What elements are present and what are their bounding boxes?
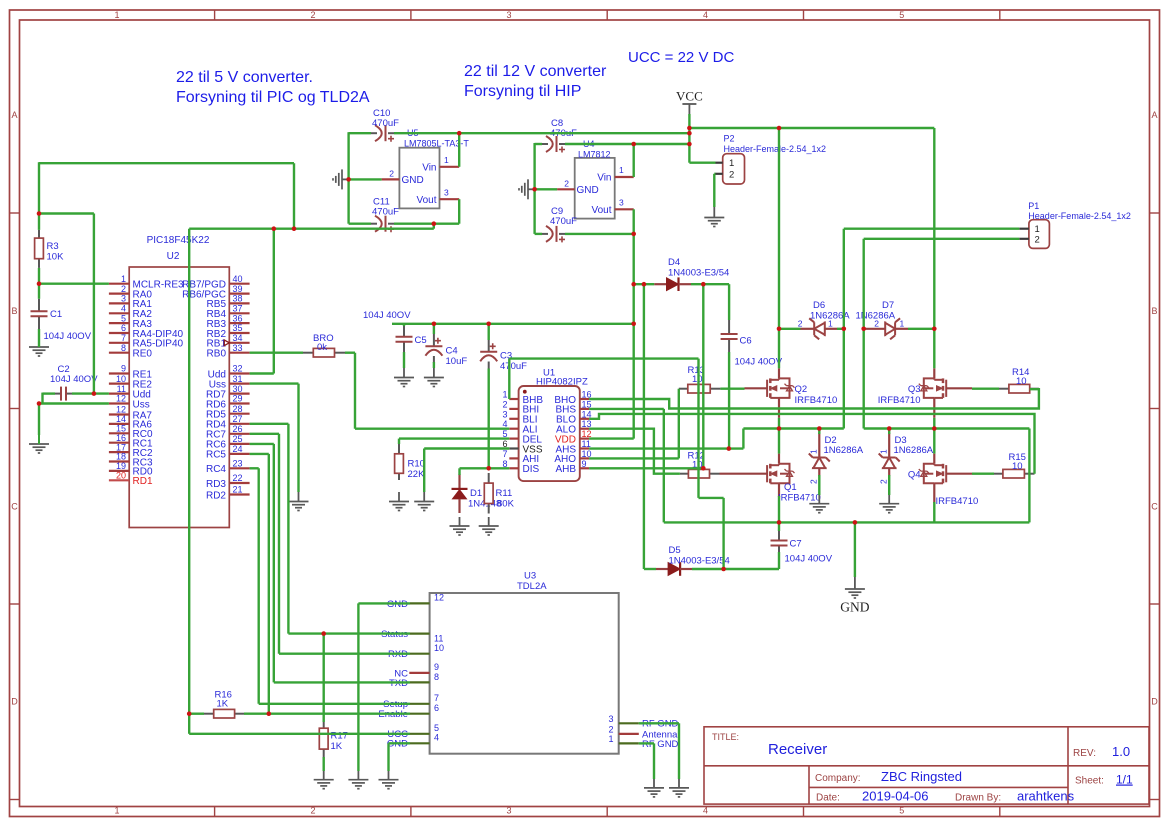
svg-text:8: 8 [121, 343, 126, 353]
junction [267, 711, 272, 716]
wire [189, 733, 410, 735]
pin [801, 328, 815, 330]
svg-text:TDL2A: TDL2A [517, 581, 547, 592]
pin [229, 413, 249, 415]
lead [994, 473, 1003, 475]
wire [273, 229, 275, 374]
svg-text:GND: GND [577, 185, 599, 196]
wire [844, 227, 1020, 229]
ground (U3 pin4) [379, 780, 399, 789]
wire [250, 467, 259, 469]
svg-text:4: 4 [703, 10, 708, 20]
wire [188, 229, 190, 714]
svg-text:3: 3 [121, 294, 126, 304]
wire [41, 393, 43, 404]
lead [488, 340, 490, 352]
wire [699, 497, 724, 499]
lead [55, 393, 61, 395]
svg-text:R11: R11 [496, 488, 513, 499]
svg-text:Vout: Vout [416, 195, 436, 206]
pin [933, 368, 935, 378]
pin [580, 447, 589, 449]
frame tick bottom [606, 807, 608, 817]
svg-text:D: D [11, 697, 18, 707]
pin [509, 467, 518, 469]
wire [778, 418, 780, 429]
wire [678, 723, 680, 779]
svg-text:4: 4 [703, 806, 708, 816]
wire [293, 163, 295, 229]
pin [615, 176, 634, 178]
svg-text:P1: P1 [1028, 201, 1039, 211]
wire [722, 498, 724, 569]
wire [535, 188, 558, 190]
svg-text:1: 1 [502, 390, 507, 400]
svg-text:C1: C1 [50, 309, 62, 320]
frame tick left [10, 799, 20, 801]
mosfet Q3 [919, 378, 946, 398]
wire [778, 128, 780, 329]
svg-text:470uF: 470uF [500, 361, 527, 372]
pin [946, 473, 972, 475]
junction [853, 520, 858, 525]
regulator U5 body [399, 148, 439, 209]
svg-text:26: 26 [233, 424, 243, 434]
ground (D2) [809, 504, 829, 513]
svg-text:3: 3 [506, 806, 511, 816]
mosfet Q1 [767, 464, 794, 484]
svg-text:27: 27 [233, 414, 243, 424]
wire [39, 283, 109, 285]
wire [38, 284, 40, 299]
wire [864, 238, 1020, 240]
svg-text:104J 40OV: 104J 40OV [44, 331, 92, 342]
svg-text:11: 11 [117, 384, 126, 394]
svg-text:A: A [1151, 110, 1157, 120]
svg-text:UCC = 22 V DC: UCC = 22 V DC [628, 49, 734, 66]
lead [388, 132, 394, 134]
lead [38, 299, 40, 311]
wire [349, 132, 371, 134]
junction [642, 282, 647, 287]
lead [488, 473, 490, 483]
svg-text:1N4003-E3/54: 1N4003-E3/54 [668, 268, 729, 279]
svg-text:Q4: Q4 [908, 470, 921, 481]
wire [347, 179, 349, 223]
ground (P2) [704, 218, 724, 227]
pin [109, 402, 129, 404]
wire [565, 143, 689, 145]
frame tick top [606, 10, 608, 20]
svg-text:0k: 0k [317, 342, 327, 353]
resistor R16 [214, 709, 235, 718]
pin [109, 393, 129, 395]
ground (C4) [424, 378, 444, 387]
svg-text:2: 2 [608, 724, 613, 734]
lead [323, 749, 325, 757]
svg-text:Q3: Q3 [908, 384, 921, 395]
svg-text:Vin: Vin [597, 173, 611, 184]
pin [509, 457, 518, 459]
wire [423, 449, 425, 493]
capacitor C9 [546, 226, 565, 243]
wire [728, 284, 730, 320]
pin [720, 473, 769, 475]
driver U1 body [519, 386, 580, 481]
wire [394, 222, 434, 224]
lead [1024, 473, 1034, 475]
svg-text:10: 10 [1012, 461, 1023, 472]
lead [488, 504, 490, 514]
svg-text:39: 39 [233, 284, 243, 294]
U2 pin 34 clock mark [224, 340, 229, 346]
wire [259, 703, 410, 705]
ground stem [713, 207, 715, 218]
capacitor C10 [375, 125, 394, 142]
junction [777, 426, 782, 431]
svg-text:32: 32 [233, 364, 243, 374]
svg-text:1: 1 [121, 274, 126, 284]
wire [533, 189, 535, 234]
junction [321, 631, 326, 636]
svg-text:B: B [11, 306, 17, 316]
svg-text:C6: C6 [740, 336, 752, 347]
svg-text:Vin: Vin [422, 162, 436, 173]
wire [664, 521, 1030, 523]
junction [777, 327, 782, 332]
ground stem [403, 368, 405, 378]
wire [689, 161, 715, 163]
junction [432, 221, 437, 226]
svg-text:2: 2 [874, 318, 879, 328]
svg-text:Forsyning til HIP: Forsyning til HIP [464, 83, 581, 100]
svg-text:2: 2 [310, 10, 315, 20]
junction [932, 327, 937, 332]
svg-text:22K: 22K [408, 469, 426, 480]
ground (RF GND 3) [669, 788, 689, 797]
wire [728, 352, 730, 449]
pin [557, 188, 575, 190]
svg-text:D1: D1 [470, 488, 482, 499]
wire [297, 384, 299, 492]
svg-text:D7: D7 [882, 300, 894, 311]
lead [388, 223, 394, 225]
svg-text:6: 6 [121, 323, 126, 333]
svg-text:C5: C5 [415, 335, 427, 346]
wire [589, 447, 743, 449]
wire [345, 352, 355, 354]
lead [778, 531, 780, 541]
svg-text:Q1: Q1 [784, 482, 797, 493]
wire [818, 475, 820, 495]
svg-text:Uss: Uss [133, 399, 150, 410]
wire [714, 173, 715, 175]
frame tick right [1150, 408, 1160, 410]
ground (GND net) [845, 589, 865, 598]
pin [410, 733, 430, 735]
wire [933, 329, 935, 369]
pin [409, 672, 429, 674]
wire [778, 329, 780, 369]
wire [663, 409, 665, 523]
ground (C2/Uss) [29, 444, 49, 453]
wire [933, 429, 935, 454]
wire [349, 222, 371, 224]
svg-text:5: 5 [899, 806, 904, 816]
svg-text:10: 10 [692, 374, 703, 385]
junction [701, 282, 706, 287]
svg-text:1N6286A: 1N6286A [894, 445, 934, 456]
capacitor C4 [425, 338, 442, 356]
wire [633, 209, 635, 234]
wire [389, 742, 411, 744]
resistor R15 [1003, 469, 1025, 478]
svg-text:1: 1 [619, 165, 624, 175]
svg-text:VCC: VCC [676, 89, 703, 104]
lead [559, 233, 565, 235]
junction [37, 401, 42, 406]
wire [778, 522, 780, 531]
pin [109, 283, 129, 285]
pin [229, 312, 249, 314]
lead [542, 143, 548, 145]
pin [946, 387, 972, 389]
svg-text:12: 12 [434, 593, 444, 603]
wire [778, 429, 780, 454]
svg-text:D6: D6 [813, 300, 825, 311]
pin [745, 387, 769, 389]
pin [933, 398, 935, 418]
lead [679, 388, 688, 390]
svg-text:35: 35 [233, 323, 243, 333]
svg-text:2: 2 [729, 169, 734, 180]
lead [680, 473, 689, 475]
frame tick right [1150, 799, 1160, 801]
wire [358, 602, 410, 604]
wire [535, 143, 542, 145]
pin [716, 162, 723, 164]
ground stem [388, 771, 390, 780]
wire [43, 392, 56, 394]
wire [458, 468, 460, 475]
svg-text:Receiver: Receiver [768, 741, 827, 758]
pin [580, 398, 589, 400]
lead [559, 143, 565, 145]
frame tick top [214, 10, 216, 20]
svg-text:1K: 1K [217, 699, 229, 710]
ground (C5) [394, 378, 414, 387]
wire [403, 352, 405, 368]
frame tick left [10, 408, 20, 410]
pin [229, 342, 249, 344]
wire [678, 389, 680, 459]
wire [188, 714, 190, 734]
wire [933, 502, 935, 522]
svg-text:RE0: RE0 [133, 349, 153, 360]
pin [888, 433, 890, 458]
junction [687, 126, 692, 131]
svg-text:1: 1 [809, 449, 819, 454]
svg-text:12: 12 [116, 394, 126, 404]
junction [817, 426, 822, 431]
svg-text:U3: U3 [524, 571, 536, 582]
lead [335, 352, 346, 354]
wire [273, 444, 275, 683]
svg-text:1: 1 [879, 449, 889, 454]
svg-text:TITLE:: TITLE: [712, 732, 739, 742]
VCC symbol [682, 104, 696, 114]
wire [354, 353, 356, 429]
pin [825, 328, 837, 330]
wire [589, 467, 703, 469]
pin [933, 483, 935, 503]
svg-text:104J 40OV: 104J 40OV [785, 554, 833, 565]
wire [589, 408, 664, 410]
svg-text:AHB: AHB [555, 464, 576, 475]
wire [458, 133, 460, 167]
svg-text:Vout: Vout [591, 205, 611, 216]
svg-text:1: 1 [900, 318, 905, 328]
svg-text:9: 9 [434, 662, 439, 672]
pin [580, 418, 589, 420]
pin [1019, 228, 1029, 230]
svg-text:1: 1 [444, 155, 449, 165]
frame tick top [999, 10, 1001, 20]
svg-text:1/1: 1/1 [1116, 773, 1133, 787]
resistor R12 [688, 469, 709, 478]
junction [37, 211, 42, 216]
wire [713, 174, 715, 207]
capacitor C7 [771, 541, 788, 546]
ground stem [423, 492, 425, 502]
svg-text:470uF: 470uF [550, 216, 577, 227]
wire [691, 283, 729, 285]
pin [229, 302, 249, 304]
lead [67, 393, 73, 395]
svg-text:1K: 1K [331, 741, 343, 752]
svg-text:DIS: DIS [523, 464, 540, 475]
svg-text:4: 4 [121, 304, 126, 314]
svg-text:104J 40OV: 104J 40OV [735, 357, 783, 368]
resistor R3 [35, 238, 44, 259]
wire [349, 178, 382, 180]
wire [460, 467, 510, 469]
junction [187, 711, 192, 716]
pin [410, 602, 430, 604]
wire [633, 234, 635, 439]
wire [399, 437, 509, 439]
svg-text:RC5: RC5 [206, 450, 226, 461]
ground (VSS) [414, 502, 434, 511]
svg-text:2: 2 [310, 806, 315, 816]
wire [39, 162, 294, 164]
svg-text:C: C [1151, 502, 1158, 512]
svg-text:D: D [1151, 697, 1158, 707]
pin [509, 438, 518, 440]
pin [619, 722, 639, 724]
pin [778, 368, 780, 378]
svg-text:2: 2 [502, 399, 507, 409]
lead [710, 388, 720, 390]
capacitor C5 [396, 337, 413, 342]
svg-text:104J 40OV: 104J 40OV [363, 310, 411, 321]
resistor R13 [688, 384, 710, 393]
wire [863, 329, 865, 429]
wire [589, 429, 680, 474]
wire [288, 632, 410, 634]
wire [458, 199, 460, 224]
pin [109, 423, 129, 425]
junction [92, 391, 97, 396]
svg-text:470uF: 470uF [372, 118, 399, 129]
lead [204, 713, 214, 715]
wire [287, 424, 289, 634]
ground stem [854, 577, 856, 589]
wire [972, 473, 994, 475]
wire [72, 392, 109, 394]
junction [272, 226, 277, 231]
pin [109, 332, 129, 334]
lead [542, 233, 548, 235]
svg-text:RD1: RD1 [133, 476, 153, 487]
lead [433, 356, 435, 363]
svg-text:10uF: 10uF [446, 356, 468, 367]
svg-text:ZBC Ringsted: ZBC Ringsted [881, 769, 962, 784]
lead [38, 230, 40, 238]
wire [93, 214, 95, 394]
pin [109, 460, 129, 462]
ground (Uss) [289, 502, 309, 511]
pin [229, 372, 249, 374]
svg-text:B: B [1151, 306, 1157, 316]
wire [589, 389, 1039, 408]
wire [565, 233, 634, 235]
wire [279, 653, 410, 655]
wire [39, 212, 94, 214]
pin [509, 447, 518, 449]
wire [633, 144, 635, 177]
wire [278, 434, 280, 654]
wire [488, 369, 490, 469]
wire [779, 328, 801, 330]
svg-text:A: A [11, 110, 17, 120]
svg-text:7: 7 [434, 693, 439, 703]
lead [778, 546, 780, 553]
svg-text:9: 9 [582, 459, 587, 469]
svg-text:1.0: 1.0 [1112, 744, 1130, 759]
ground (D1) [450, 526, 470, 535]
wire [424, 447, 509, 449]
svg-text:22 til 12 V converter: 22 til 12 V converter [464, 63, 607, 80]
ground stem [818, 495, 820, 504]
wire [639, 742, 654, 744]
svg-text:3: 3 [502, 409, 507, 419]
U1 pin1 mark [523, 390, 527, 394]
svg-text:5: 5 [434, 723, 439, 733]
wire [864, 427, 1030, 429]
pin [778, 454, 780, 464]
wire [189, 227, 434, 229]
wire [863, 239, 865, 329]
svg-text:40: 40 [233, 274, 243, 284]
svg-text:RD2: RD2 [206, 490, 226, 501]
svg-text:80K: 80K [497, 499, 515, 510]
junction [777, 520, 782, 525]
wire [778, 552, 780, 569]
wire [688, 114, 690, 163]
pin [580, 428, 589, 430]
lead [1030, 388, 1039, 390]
